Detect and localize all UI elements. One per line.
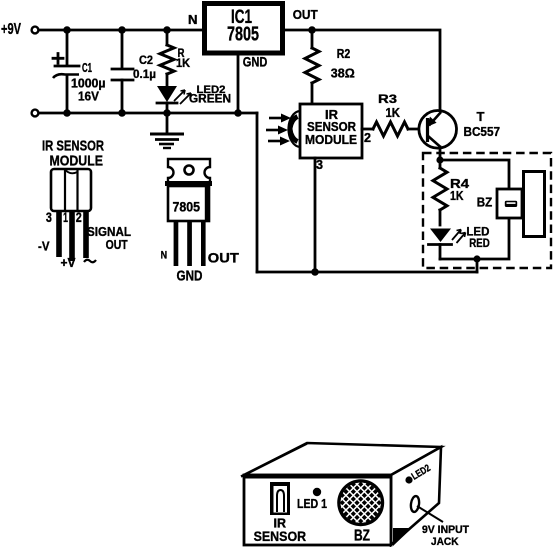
svg-text:MODULE: MODULE (305, 133, 357, 147)
LED1 dot (313, 488, 321, 496)
svg-text:T: T (477, 110, 485, 124)
capacitor C1 1000u 16V (53, 30, 106, 113)
lens on module (288, 111, 300, 147)
svg-text:GND: GND (243, 55, 268, 70)
wire ground left vertical (256, 113, 259, 272)
transistor T BC557 (419, 110, 500, 160)
svg-text:SENSOR: SENSOR (307, 120, 356, 134)
svg-text:7805: 7805 (227, 24, 259, 46)
buzzer BZ (477, 172, 545, 237)
svg-text:1K: 1K (176, 58, 191, 70)
svg-text:N: N (188, 13, 198, 27)
svg-text:JACK: JACK (431, 536, 459, 547)
wire LED bottom to buzzer bottom (440, 218, 509, 259)
resistor R3 1K (373, 92, 429, 136)
node LED2 ground (163, 109, 171, 117)
svg-text:3: 3 (46, 210, 52, 225)
node pin3 ground (311, 268, 319, 276)
enclosure top-left overhang (241, 444, 307, 477)
svg-text:SENSOR: SENSOR (254, 528, 307, 544)
svg-text:9V INPUT: 9V INPUT (422, 524, 469, 536)
svg-text:1: 1 (63, 210, 68, 225)
wire branch to ground rail (476, 259, 479, 272)
node collector (436, 156, 443, 163)
svg-text:3: 3 (316, 158, 323, 172)
IR sensor module box (300, 104, 362, 158)
svg-text:1K: 1K (386, 106, 401, 120)
node IC1 gnd rail (234, 109, 242, 117)
node branch ground (473, 255, 480, 262)
9V jack (410, 496, 443, 522)
svg-text:C1: C1 (82, 61, 92, 75)
svg-text:BZ: BZ (354, 528, 370, 545)
buzzer grille (272, 473, 450, 533)
wire IC1 GND down (237, 53, 240, 113)
svg-text:OUT: OUT (208, 251, 240, 266)
LED2 green (157, 84, 231, 113)
+9V terminal (1, 21, 38, 38)
svg-text:LED 1: LED 1 (297, 497, 327, 511)
svg-text:BZ: BZ (477, 195, 493, 210)
resistor R2 68ohm (305, 30, 355, 104)
node C2 top (118, 26, 126, 34)
svg-text:BC557: BC557 (464, 125, 501, 139)
resistor R4 1K (433, 160, 469, 225)
0V terminal (32, 110, 39, 117)
wire ground bottom rail (257, 271, 477, 274)
wire module pin2 (362, 128, 373, 131)
svg-text:2: 2 (364, 131, 371, 145)
svg-text:R2: R2 (337, 47, 351, 61)
IR sensor window on front (270, 482, 290, 515)
enclosure front face (244, 475, 391, 545)
svg-text:2: 2 (76, 210, 82, 225)
LED2 dot on side (405, 476, 412, 483)
wire bottom rail (39, 112, 257, 115)
svg-text:C2: C2 (139, 55, 153, 67)
svg-text:GND: GND (177, 269, 203, 285)
IR arrows (266, 114, 291, 146)
svg-text:1K: 1K (450, 189, 464, 203)
label SIGNAL OUT (84, 225, 131, 262)
node C1 top (63, 26, 71, 34)
node OUT (308, 26, 316, 34)
enclosure side face (391, 447, 441, 545)
svg-text:7805: 7805 (173, 199, 201, 215)
node C1 bottom (63, 109, 71, 117)
svg-text:MODULE: MODULE (50, 153, 104, 170)
enclosure bottom sliver (393, 528, 412, 546)
LED red (429, 224, 491, 259)
svg-text:RED: RED (469, 236, 490, 250)
dashed alarm box (423, 153, 551, 268)
label 9V INPUT JACK (422, 524, 469, 547)
svg-text:OUT: OUT (293, 8, 318, 22)
node C2 bottom (118, 109, 126, 117)
svg-text:38Ω: 38Ω (331, 66, 355, 81)
svg-text:+V: +V (61, 255, 76, 270)
wire OUT rail to transistor (284, 30, 440, 112)
package drawing: 7805 TO-220 (165, 159, 212, 266)
ground symbol (150, 113, 184, 148)
pinout legs (56, 211, 89, 261)
wire module pin3 (314, 158, 317, 272)
enclosure top face (244, 443, 441, 475)
svg-text:R3: R3 (378, 92, 397, 106)
svg-text:SIGNAL: SIGNAL (87, 225, 131, 239)
capacitor C2 0.1u (112, 30, 156, 113)
svg-text:GREEN: GREEN (189, 94, 231, 106)
wire top rail (39, 29, 203, 32)
svg-text:0.1µ: 0.1µ (133, 67, 156, 81)
svg-text:OUT: OUT (106, 238, 128, 252)
pinout drawing: IR sensor module (42, 139, 104, 212)
svg-text:N: N (161, 250, 168, 262)
svg-text:1000µ: 1000µ (71, 77, 106, 91)
resistor R 1K (160, 30, 191, 86)
svg-text:+9V: +9V (1, 21, 22, 38)
svg-text:-V: -V (38, 240, 50, 254)
svg-text:16V: 16V (78, 90, 100, 104)
node R1 top (163, 26, 171, 34)
wire collector to buzzer top (440, 160, 509, 189)
pin labels 3 1 2 (46, 210, 82, 225)
IC1 7805 regulator box (205, 4, 283, 54)
